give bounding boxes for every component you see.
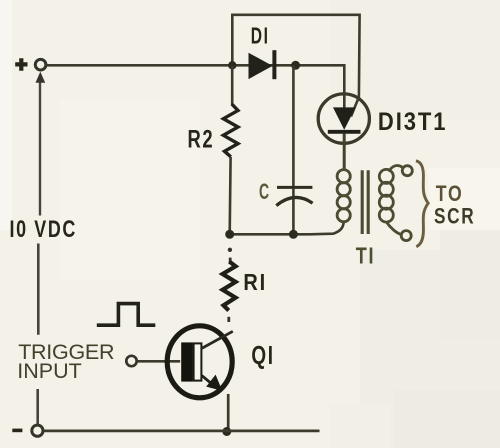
wire secondary top lead xyxy=(389,165,403,171)
terminal secondary top xyxy=(402,166,412,176)
wire secondary bottom lead xyxy=(386,222,401,235)
resistor R2 xyxy=(223,104,238,157)
svg-text:INPUT: INPUT xyxy=(17,359,84,383)
svg-text:DI3T1: DI3T1 xyxy=(378,108,448,136)
wire left vertical from 10VDC label down to TRIGGER label xyxy=(37,244,40,335)
transformer T1 primary winding xyxy=(337,170,350,222)
diode D1 xyxy=(249,50,275,79)
wire dash below R1 xyxy=(227,317,230,322)
resistor R1 xyxy=(223,262,236,311)
svg-text:DI: DI xyxy=(251,23,270,49)
wire main horizontal from + to D1 anode junction and on to PUT anode bend xyxy=(46,65,344,108)
svg-text:R2: R2 xyxy=(188,126,215,154)
wire R2 bottom lead xyxy=(228,157,232,235)
transformer T1 secondary winding xyxy=(379,169,393,222)
terminal secondary bottom xyxy=(401,231,411,241)
capacitor C xyxy=(276,65,312,234)
wire dashed below R2 junction xyxy=(228,248,232,252)
wire mid horizontal from R2 bottom to transformer primary bottom xyxy=(230,222,344,235)
terminal trigger input xyxy=(126,356,136,366)
brace to SCR xyxy=(416,161,428,247)
wire emitter to ground rail xyxy=(227,394,230,430)
pulse waveform xyxy=(97,304,156,326)
wire left vertical above minus terminal xyxy=(36,389,39,425)
node junction R2 bottom xyxy=(225,230,234,239)
svg-text:I0 VDC: I0 VDC xyxy=(10,216,78,243)
transformer T1 core xyxy=(362,170,368,234)
svg-text:C: C xyxy=(259,179,271,204)
svg-text:TI: TI xyxy=(356,243,376,269)
wire base lead xyxy=(137,360,180,363)
node junction emitter/rail xyxy=(222,427,231,436)
svg-text:RI: RI xyxy=(243,269,267,295)
svg-text:SCR: SCR xyxy=(434,204,475,229)
wire bottom ground rail xyxy=(44,429,320,432)
plus terminal xyxy=(15,58,46,83)
svg-text:TO: TO xyxy=(436,181,464,206)
node junction above D1 xyxy=(228,61,236,69)
wire top rail from above D1 to PUT gate xyxy=(232,15,359,117)
minus terminal xyxy=(12,425,43,436)
node junction at D1 cathode xyxy=(291,61,300,70)
PUT D13T1 xyxy=(318,94,369,170)
node junction C bottom xyxy=(289,230,298,239)
wire R2 top lead xyxy=(231,65,234,104)
wire left vertical from + down to 10VDC label xyxy=(39,83,41,216)
transistor Q1 xyxy=(167,326,233,398)
svg-text:QI: QI xyxy=(251,340,274,370)
